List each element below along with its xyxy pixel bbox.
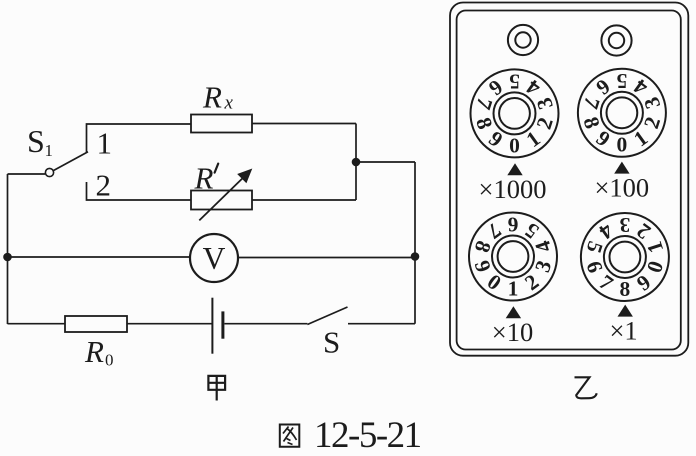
svg-text:×100: ×100 [594, 173, 649, 203]
svg-text:×1000: ×1000 [479, 174, 547, 204]
svg-text:3: 3 [619, 213, 630, 237]
svg-text:R: R [202, 79, 222, 114]
svg-text:0: 0 [509, 133, 520, 157]
svg-text:R: R [84, 334, 104, 369]
svg-text:1: 1 [45, 141, 54, 160]
svg-text:1: 1 [97, 126, 113, 161]
svg-text:V: V [203, 241, 226, 276]
svg-text:S: S [27, 123, 45, 159]
svg-text:2: 2 [96, 168, 112, 203]
svg-text:0: 0 [105, 351, 114, 370]
svg-text:5: 5 [509, 70, 520, 94]
svg-text:x: x [224, 93, 234, 114]
svg-text:S: S [323, 325, 340, 360]
svg-text:6: 6 [507, 213, 518, 237]
svg-text:12-5-21: 12-5-21 [314, 415, 421, 451]
svg-text:×10: ×10 [492, 317, 533, 347]
svg-text:8: 8 [620, 277, 631, 301]
svg-text:R: R [194, 161, 214, 196]
svg-text:0: 0 [617, 133, 628, 157]
svg-text:×1: ×1 [609, 316, 637, 346]
svg-text:1: 1 [508, 276, 519, 300]
svg-text:5: 5 [617, 69, 628, 93]
